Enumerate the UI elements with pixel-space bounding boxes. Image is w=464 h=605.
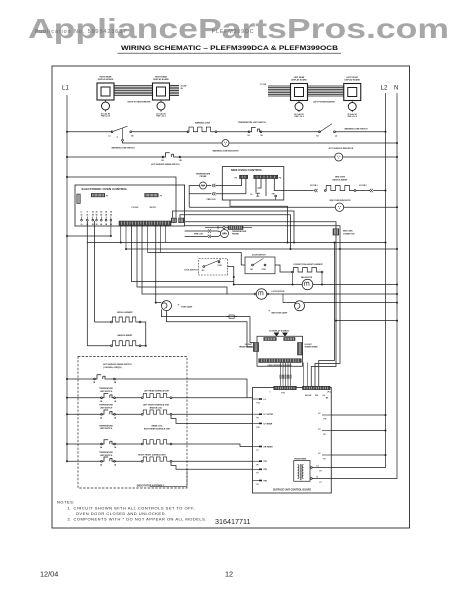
lock switch S1 [199, 259, 228, 275]
svg-text:LIMIT SWITCH: LIMIT SWITCH [100, 407, 113, 409]
wire row A to right switch [262, 131, 320, 133]
wire probe lower loop [185, 230, 207, 232]
wire SUCB P6 to L2 [331, 430, 385, 432]
UIB bottom connector strip [259, 359, 302, 363]
svg-text:12/04: 12/04 [40, 570, 58, 579]
relay bar K1 in EOC [91, 193, 105, 197]
SUCB right pin P9 [322, 454, 331, 456]
probe lower connector chevrons [208, 229, 210, 232]
wire transformer to L2 [312, 467, 331, 469]
UIB right connector [298, 343, 303, 356]
svg-text:P9: P9 [324, 458, 326, 460]
relay bar K2 in EOC [145, 193, 159, 197]
wire row3 to SUCB [172, 444, 253, 447]
wire mini box drop1 [230, 200, 288, 243]
svg-text:TEMPERATURE: TEMPERATURE [99, 387, 113, 390]
SUCB right pin P11 [322, 414, 331, 416]
svg-text:INNER COIL: INNER COIL [152, 426, 164, 428]
arrow to display boards 1 [274, 333, 279, 336]
svg-text:500 P11: 500 P11 [150, 207, 157, 209]
wire EOC pin drop to broil [94, 221, 96, 322]
svg-text:P9: P9 [235, 177, 237, 179]
display board left front [344, 84, 361, 101]
svg-text:K2: K2 [316, 135, 318, 137]
wire EOC strip drops [120, 225, 122, 242]
wire bake right [141, 345, 146, 347]
svg-text:LF OUTER: LF OUTER [264, 414, 274, 416]
wire lock motor row right [269, 293, 397, 295]
svg-text:RF1: RF1 [264, 461, 268, 463]
transformer terminal lower [310, 478, 312, 480]
wire UIB bundle B extra [303, 363, 305, 387]
svg-text:NOTES:: NOTES: [57, 500, 75, 505]
wire probe to mini oven control pins [216, 179, 242, 186]
wire row4 second terminal to RF2 [171, 462, 253, 469]
svg-text:PRB CON: PRB CON [194, 233, 203, 235]
svg-text:LIMIT SWITCH: LIMIT SWITCH [100, 455, 113, 457]
svg-text:P10 500: P10 500 [132, 207, 139, 209]
wire row C middle [181, 156, 335, 158]
svg-text:TEMPERATURE LIMIT SWITCH: TEMPERATURE LIMIT SWITCH [238, 121, 266, 124]
svg-text:UI LIGHT: UI LIGHT [305, 344, 313, 346]
svg-text:P4: P4 [279, 176, 281, 179]
SUCB top connector right [303, 386, 331, 389]
title underline [118, 52, 342, 54]
svg-text:HOT SURFACE SENSE SWITCH: HOT SURFACE SENSE SWITCH [103, 363, 132, 366]
svg-text:TEMPERATURE: TEMPERATURE [196, 173, 211, 176]
svg-text:CONVECTION ASSIST ELEMENT: CONVECTION ASSIST ELEMENT [293, 263, 323, 266]
transformer T1 in SUCB [294, 461, 310, 482]
svg-text:12: 12 [225, 570, 233, 579]
svg-text:TRANSFORMER: TRANSFORMER [239, 346, 253, 349]
svg-text:WIRING SCHEMATIC – PLEFM399DCA: WIRING SCHEMATIC – PLEFM399DCA & PLEFM39… [121, 45, 339, 52]
svg-text:HOT SURFACE SENSE SWITCH: HOT SURFACE SENSE SWITCH [151, 163, 180, 166]
hot surface sense switch [162, 156, 164, 158]
wire row A to L2 [335, 131, 385, 133]
wire door switch out [275, 265, 293, 272]
wire L2 vertical rail [331, 93, 385, 468]
wire lamp bus to N [336, 320, 397, 322]
svg-text:PLEFM399DC: PLEFM399DC [212, 29, 255, 35]
EOC bottom connector strip [119, 221, 171, 225]
wire row A left segment [66, 131, 68, 133]
svg-text:LEFT REAR: LEFT REAR [294, 76, 305, 79]
svg-text:TRANSFORMER: TRANSFORMER [305, 346, 319, 349]
user interface board U3 [257, 336, 303, 366]
mini oven control board U2 [222, 167, 283, 200]
svg-text:MINI OVEN INDICATOR: MINI OVEN INDICATOR [330, 199, 351, 202]
hot surface sense switch smoothtop [66, 378, 68, 380]
svg-text:P7: P7 [257, 450, 259, 452]
display board left rear [291, 84, 308, 101]
mini oven control internal wires [255, 179, 257, 193]
svg-text:(1 SHOWN, 4 REQ'D): (1 SHOWN, 4 REQ'D) [103, 366, 122, 369]
svg-text:LOCK SWITCH: LOCK SWITCH [184, 270, 198, 272]
svg-text:BROIL ELEMENT: BROIL ELEMENT [117, 312, 133, 314]
smoothtop assembly dashed box [78, 357, 187, 489]
svg-text:RF2: RF2 [264, 480, 268, 482]
svg-text:DISPLAY BOARD: DISPLAY BOARD [345, 79, 361, 82]
mini oven connector [333, 229, 339, 235]
svg-text:1: 1 [270, 392, 271, 394]
svg-text:P10: P10 [257, 427, 260, 429]
svg-text:LF INNER: LF INNER [264, 423, 273, 425]
svg-text:DISPLAY BOARD: DISPLAY BOARD [153, 78, 169, 81]
wire bus y242.5 [87, 242, 385, 244]
wire EOC drop to horizontal d2 [137, 225, 227, 294]
svg-text:L1: L1 [62, 85, 69, 92]
connector P5 on EOC left edge [77, 194, 81, 204]
svg-text:P8: P8 [257, 418, 259, 420]
probe connector chevrons [212, 184, 214, 187]
wire row D feeder [66, 176, 68, 178]
svg-text:USER INTERFACE BOARD: USER INTERFACE BOARD [268, 364, 293, 367]
wire EOC drop to horizontal d1 [132, 225, 234, 281]
SUCB right pin P6 [322, 430, 331, 432]
svg-text:Publication No. 5995423637: Publication No. 5995423637 [35, 29, 127, 35]
door switch S2 [245, 257, 275, 274]
schematic border frame [52, 66, 410, 528]
connector 30A on EOC [171, 218, 176, 223]
UIB top connector 2 [284, 338, 295, 341]
svg-text:MINI OVEN LAMP: MINI OVEN LAMP [272, 311, 288, 314]
svg-text:P5: P5 [257, 484, 259, 486]
wire mini lamp row [283, 302, 295, 304]
UIB top connector 1 [264, 338, 277, 341]
wire lock switch out [228, 267, 234, 285]
svg-text:L1: L1 [108, 135, 110, 137]
svg-text:WARMING ZONE SWITCH: WARMING ZONE SWITCH [344, 127, 368, 130]
svg-text:HOT SURFACE INDICATOR: HOT SURFACE INDICATOR [329, 147, 354, 150]
wire broil left [95, 321, 111, 323]
svg-text:TEMPERATURE: TEMPERATURE [99, 424, 113, 427]
svg-text:ELECTRONIC OVEN CONTROL: ELECTRONIC OVEN CONTROL [82, 187, 128, 191]
wire EOC to mini oven connector [185, 222, 336, 229]
svg-text:P3: P3 [257, 473, 259, 475]
svg-text:OVEN LAMP: OVEN LAMP [181, 306, 193, 309]
wire row B [123, 141, 223, 143]
svg-text:TO DISPLAY BOARDS: TO DISPLAY BOARDS [269, 330, 290, 333]
svg-text:FL: FL [250, 194, 252, 196]
svg-text:TEMPERATURE: TEMPERATURE [232, 230, 247, 233]
wire fan row [234, 284, 302, 286]
svg-text:RR INNER: RR INNER [264, 446, 274, 448]
ribbon cable to left rear board [268, 85, 291, 87]
svg-text:L2: L2 [335, 135, 337, 137]
wire bus y249 [126, 248, 397, 250]
svg-text:2. COMPONENTS WITH * DO NOT: 2. COMPONENTS WITH * DO NOT APPEAR ON AL… [68, 517, 207, 522]
svg-text:OVEN DOOR CLOSED AND UNLOCKED.: OVEN DOOR CLOSED AND UNLOCKED. [76, 511, 167, 516]
wire mini bake row left [284, 190, 314, 192]
wire EOC lower bus link [185, 226, 340, 249]
svg-text:LEFT FRONT SURFACE UNIT: LEFT FRONT SURFACE UNIT [143, 404, 170, 407]
svg-text:BRIDGE COIL: BRIDGE COIL [150, 408, 163, 410]
svg-text:WARMING ZONE SWITCH: WARMING ZONE SWITCH [111, 147, 135, 150]
wire bake left [87, 345, 110, 347]
fuse FW terminal in mini oven control [275, 195, 277, 197]
wire jumper L1 to EOC pin [66, 235, 68, 237]
inline connector block y227 [205, 227, 223, 229]
wire SUCB P9 to L2 [331, 454, 385, 456]
svg-text:P1: P1 [106, 196, 108, 198]
inline connector on lamp wire [229, 315, 234, 318]
hot surface indicator [335, 153, 343, 161]
svg-text:N: N [394, 85, 398, 92]
wire oven lamp out1 with connector [162, 310, 254, 343]
svg-text:FAN MOTOR: FAN MOTOR [301, 276, 313, 279]
wire UIB bundle A [280, 363, 282, 387]
wire smoothtop right return [150, 469, 187, 486]
svg-text:WARMING ZONE INDICATOR: WARMING ZONE INDICATOR [213, 150, 240, 153]
svg-text:1. CIRCUIT SHOWN WITH ALL CON: 1. CIRCUIT SHOWN WITH ALL CONTROLS SET T… [68, 506, 196, 511]
svg-text:L2: L2 [317, 466, 319, 468]
svg-text:L2: L2 [318, 429, 320, 431]
svg-text:M OVN 1: M OVN 1 [310, 185, 317, 187]
svg-text:PROBE: PROBE [200, 176, 207, 178]
svg-text:WARMING ZONE: WARMING ZONE [195, 121, 211, 124]
svg-text:RIGHT REAR: RIGHT REAR [155, 75, 167, 78]
svg-text:P6: P6 [324, 434, 326, 436]
wire L1 vertical rail [66, 95, 68, 462]
wire row2 to SUCB [172, 413, 253, 415]
svg-text:P6: P6 [257, 465, 259, 467]
ribbon cable between right boards [114, 85, 153, 87]
svg-text:RIGHT REAR: RIGHT REAR [100, 75, 112, 78]
svg-text:LEFT POTENTIOMETER: LEFT POTENTIOMETER [313, 102, 335, 104]
svg-text:TEMPERATURE: TEMPERATURE [99, 404, 113, 407]
SUCB left pins [253, 398, 263, 400]
svg-text:PRB CON: PRB CON [207, 199, 216, 201]
svg-text:SMOOTHTOP ASSEMBLY: SMOOTHTOP ASSEMBLY [137, 484, 165, 487]
svg-text:LIMIT SWITCH: LIMIT SWITCH [100, 391, 113, 393]
connector P4 in mini oven control [254, 175, 278, 178]
mini oven lamp [295, 301, 305, 311]
surface unit control board U4 [253, 388, 332, 494]
svg-text:MINI OVEN: MINI OVEN [335, 177, 346, 179]
wire EOC 30A to bus upper [173, 211, 295, 243]
wire convection drops [292, 273, 294, 285]
wire lock switch feeder [148, 253, 246, 266]
svg-text:RIGHT REAR SURFACE UNIT: RIGHT REAR SURFACE UNIT [144, 427, 171, 430]
svg-text:DOOR SWITCH: DOOR SWITCH [252, 255, 266, 257]
svg-text:COM: COM [218, 265, 223, 267]
wire EOC pin drop to bake [86, 221, 88, 346]
warming zone switch right [319, 131, 321, 133]
wire row4 to SUCB [172, 460, 253, 462]
svg-text:RIGHT FRONT SURFACE UNIT: RIGHT FRONT SURFACE UNIT [138, 453, 166, 456]
UIB left connector [253, 343, 258, 352]
svg-text:BAKE ELEMENT: BAKE ELEMENT [118, 334, 134, 337]
svg-text:M OVN 2: M OVN 2 [359, 185, 366, 187]
wire EOC drop oven lamp feeder [155, 225, 157, 302]
wire row C left [66, 156, 68, 158]
svg-text:FW: FW [272, 193, 275, 195]
ribbon cable between left boards [308, 85, 344, 87]
svg-text:LIMIT SWITCH: LIMIT SWITCH [100, 428, 113, 430]
wire probe loop [189, 186, 199, 208]
wire row A middle [132, 131, 188, 133]
svg-text:RIGHT POTENTIOMETER: RIGHT POTENTIOMETER [128, 102, 151, 104]
wire broil right [141, 322, 146, 346]
svg-text:SU3 SU5: SU3 SU5 [305, 395, 311, 397]
svg-text:RF2: RF2 [264, 469, 268, 471]
wire EOC 30B to bus upper2 [180, 215, 291, 249]
svg-text:P14: P14 [257, 401, 260, 404]
svg-text:P1: P1 [320, 482, 322, 484]
wire mini indicator row [189, 206, 335, 208]
svg-text:BAKE ELEMENT: BAKE ELEMENT [333, 178, 349, 181]
svg-text:P12: P12 [281, 392, 284, 394]
svg-text:P2: P2 [160, 196, 162, 198]
wire row1 to SUCB [172, 397, 253, 399]
svg-text:P11: P11 [324, 418, 327, 420]
warming zone indicator [222, 140, 229, 147]
wire mini connector vertical [311, 235, 336, 386]
oven lamp [155, 302, 157, 304]
connector 30B on EOC [179, 218, 184, 223]
transformer terminal upper [310, 467, 312, 469]
wire right vertical a [319, 243, 335, 387]
svg-text:L2: L2 [381, 85, 388, 92]
svg-text:COM: COM [262, 269, 267, 271]
svg-text:L2: L2 [318, 453, 320, 455]
chevron connector M OVN 2 [370, 189, 372, 192]
SUCB top connector P12 [274, 386, 297, 389]
mini oven indicator [335, 203, 343, 211]
svg-text:TEMPERATURE: TEMPERATURE [99, 451, 113, 454]
svg-text:L2: L2 [318, 413, 320, 415]
fuse FL in mini oven control [256, 193, 261, 196]
svg-text:MINI OVEN: MINI OVEN [343, 231, 353, 233]
svg-text:SURFACE UNIT CONTROL BOARD: SURFACE UNIT CONTROL BOARD [273, 488, 311, 491]
display board right rear [97, 83, 114, 100]
svg-text:UI LIGHT: UI LIGHT [245, 344, 253, 346]
wire N vertical rail [331, 93, 397, 479]
display board right front [153, 83, 170, 100]
svg-text:L2: L2 [264, 399, 266, 401]
svg-text:CONNECTOR: CONNECTOR [343, 234, 355, 236]
ribbon cable stub right [170, 85, 180, 87]
arrow to display boards 2 [283, 333, 288, 336]
svg-text:P2: P2 [320, 471, 322, 473]
svg-text:MINI OVEN CONTROL: MINI OVEN CONTROL [231, 168, 263, 172]
svg-text:L1: L1 [81, 212, 83, 214]
svg-text:DISPLAY BOARD: DISPLAY BOARD [98, 78, 114, 81]
svg-text:LOCK MOTOR: LOCK MOTOR [272, 291, 286, 293]
chevron connector M OVN 1 [314, 189, 316, 192]
wire transformer to N [312, 478, 331, 480]
wire SUCB P11 to L2 [331, 414, 385, 416]
wire row A to limit switch [217, 131, 249, 133]
wire mini bake row to L2 [356, 190, 370, 192]
svg-text:LEFT REAR SURFACE UNIT: LEFT REAR SURFACE UNIT [144, 390, 170, 393]
wire row2 second terminal to LF INNER [171, 415, 253, 423]
svg-text:316417711: 316417711 [215, 517, 250, 526]
wire row C to N [343, 156, 397, 158]
svg-text:TO 1YA: TO 1YA [260, 83, 267, 86]
wire right vertical b [315, 249, 340, 386]
svg-text:PROBE: PROBE [232, 234, 239, 236]
svg-text:(P1): (P1) [328, 392, 331, 394]
electronic oven control board U1 [75, 185, 185, 226]
svg-text:DISPLAY BOARD: DISPLAY BOARD [291, 79, 307, 82]
wire sense row to SUCB [115, 379, 247, 398]
warming zone switch left [111, 131, 113, 133]
wire EOC drop to lock motor row [142, 225, 255, 294]
wire oven lamp out2 [167, 311, 254, 347]
